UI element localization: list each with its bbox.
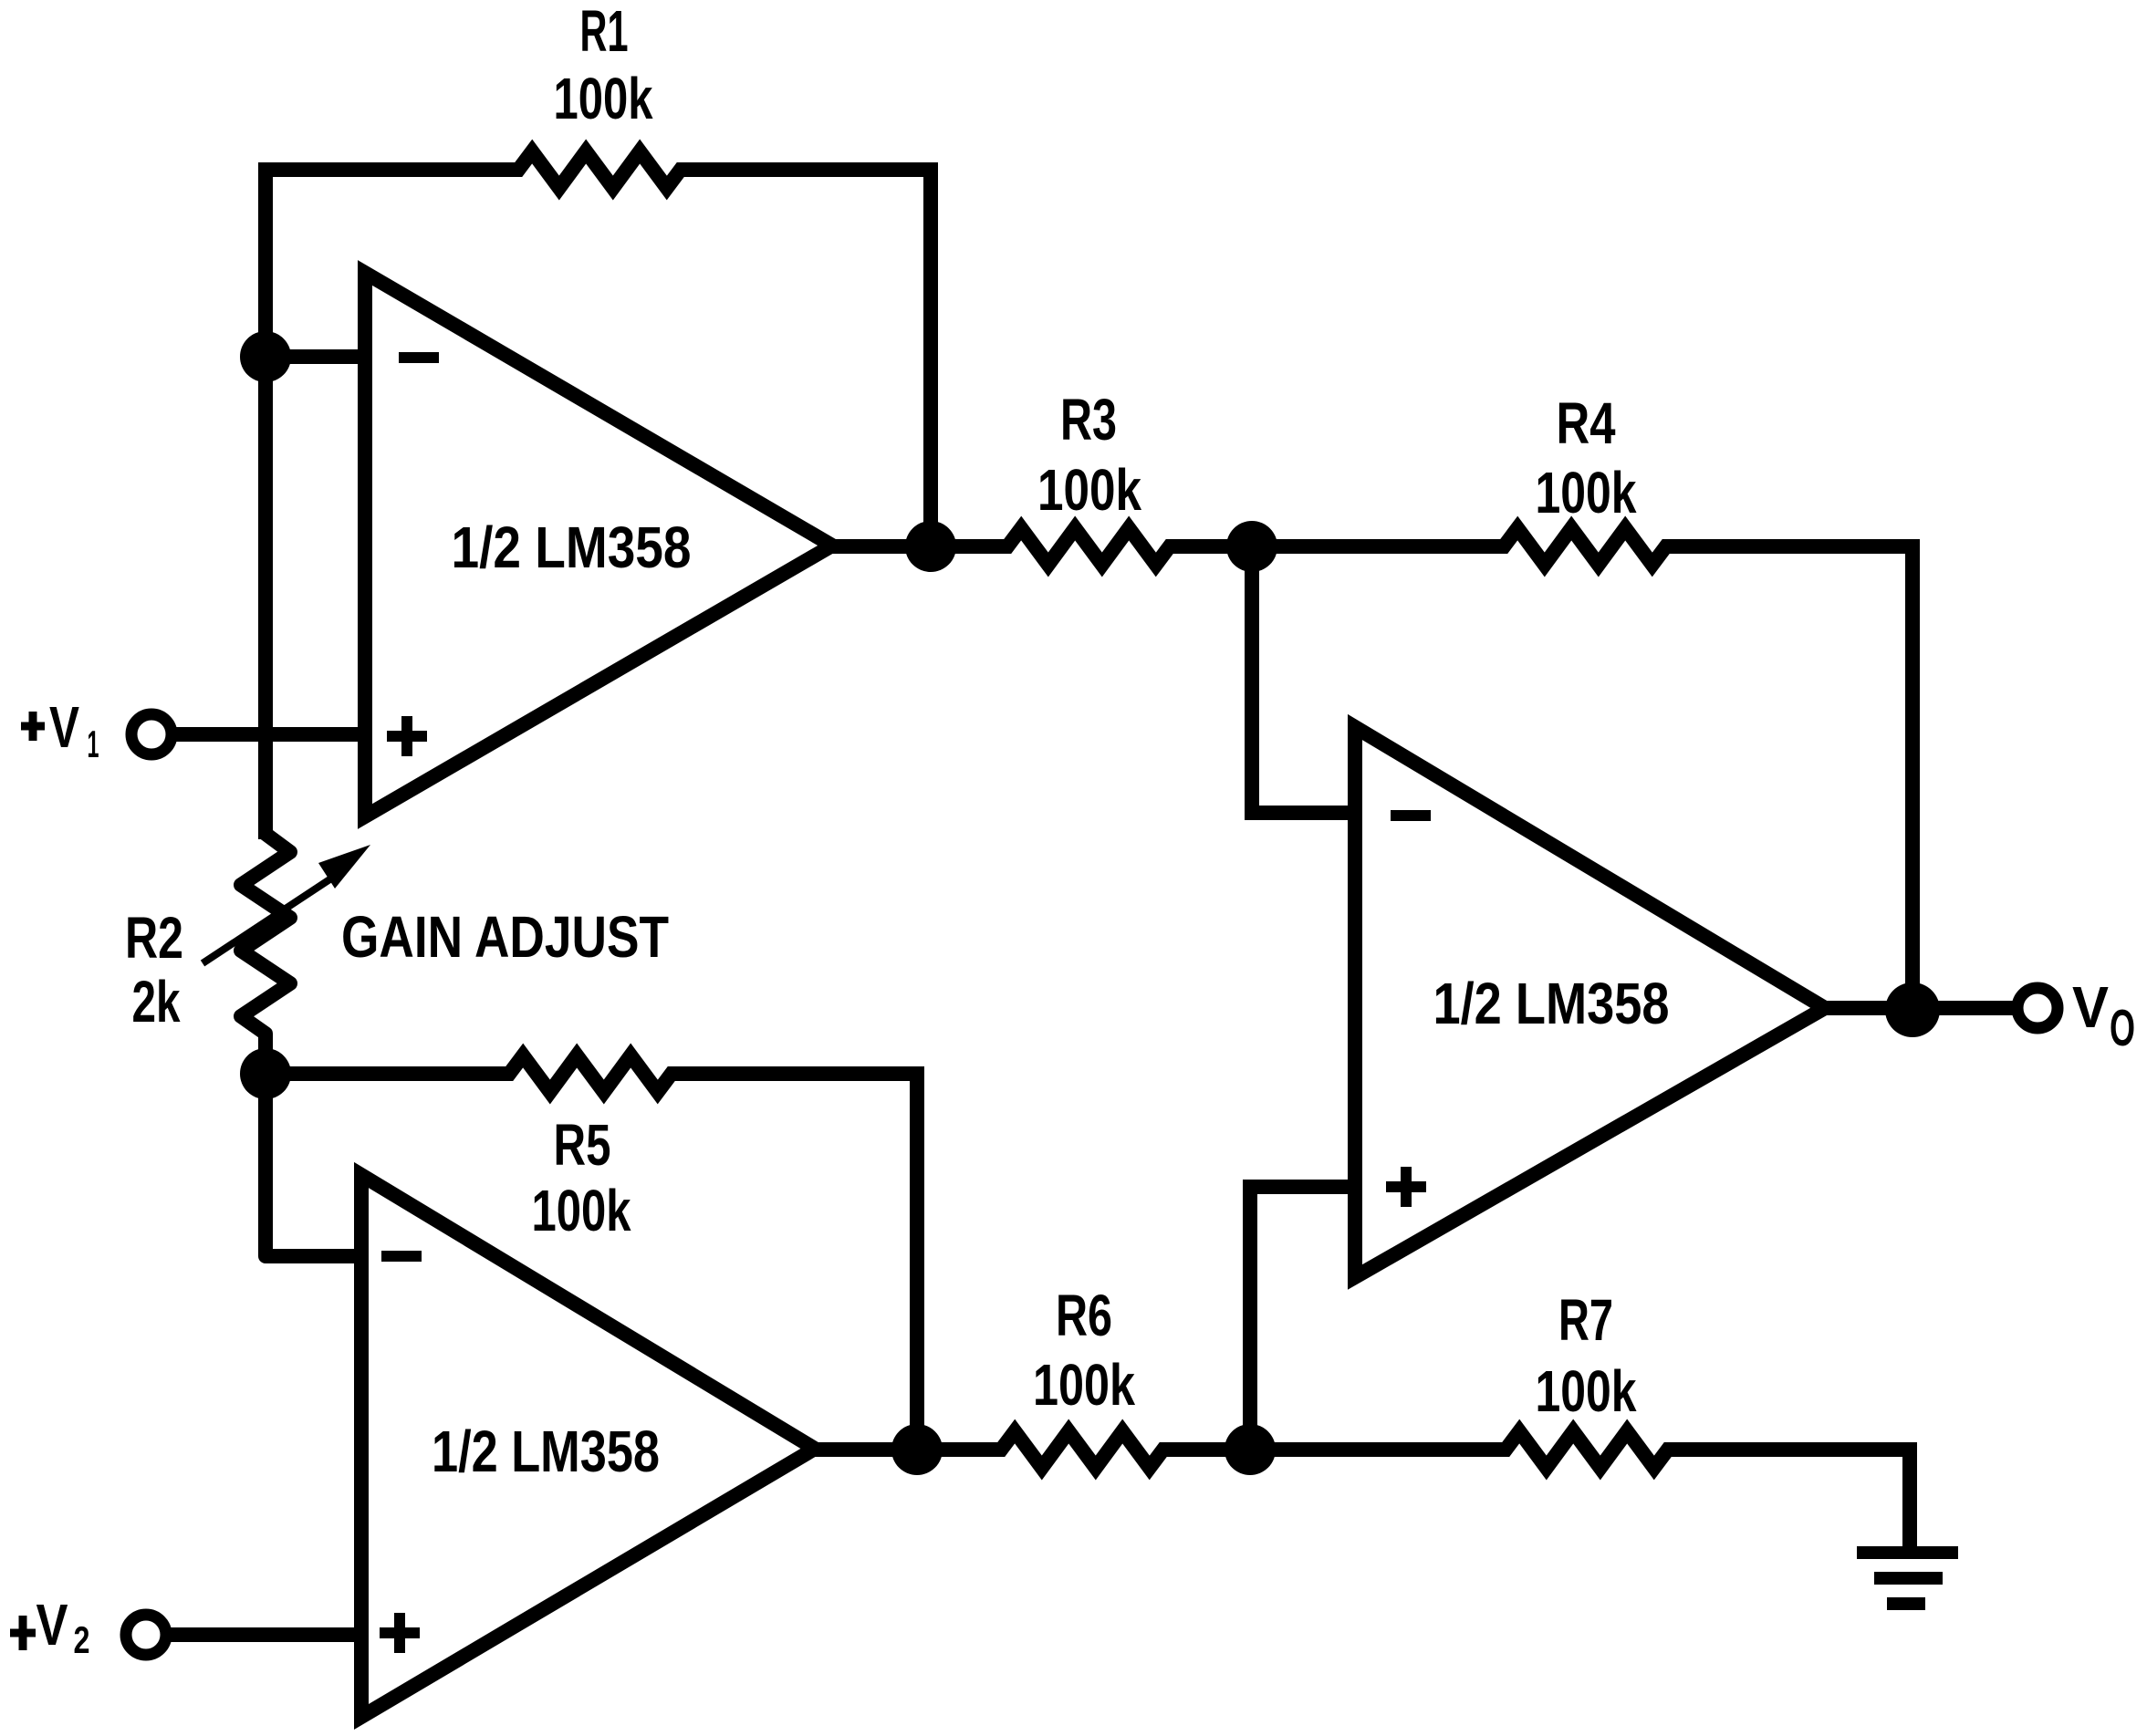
terminal +V2 — [126, 1615, 166, 1655]
svg-text:R4: R4 — [1557, 390, 1616, 456]
U2 plus input symbol — [380, 1627, 420, 1638]
potentiometer R2 zigzag and wire down to U2 inverting input — [241, 816, 365, 1256]
op-amp U1 (1/2 LM358) — [365, 273, 832, 816]
wire: R5 row from node B (with resistor R5) and vertical down to U2 output node — [266, 1055, 917, 1449]
wire: R1 feedback loop (with resistor R1), left rail down to potentiometer R2 — [266, 151, 931, 839]
ground stub — [1902, 1443, 1917, 1551]
node F junction dot (U2 output) — [891, 1424, 943, 1475]
svg-text:1: 1 — [88, 722, 99, 765]
node B junction dot (R2 bottom / R5 node) — [240, 1048, 291, 1099]
svg-text:100k: 100k — [1033, 1352, 1135, 1418]
svg-text:2k: 2k — [132, 969, 181, 1034]
svg-text:100k: 100k — [1536, 1358, 1637, 1424]
label +V1 — [21, 722, 45, 731]
svg-text:100k: 100k — [532, 1178, 631, 1243]
svg-text:R6: R6 — [1056, 1283, 1112, 1348]
wire: node A to U1 inverting input — [266, 349, 365, 364]
node: U1 output junction dot — [905, 521, 956, 572]
ground bar 1 — [1857, 1546, 1958, 1559]
terminal +V1 — [131, 714, 172, 754]
U3 plus input symbol — [1386, 1181, 1426, 1192]
ground bar 3 — [1887, 1597, 1925, 1610]
node E junction dot (R6/R7 junction) — [1225, 1424, 1276, 1475]
node A junction dot (U1 inverting input node) — [240, 331, 291, 382]
svg-text:R2: R2 — [125, 905, 183, 971]
terminal Vo — [2017, 988, 2058, 1028]
svg-text:1/2 LM358: 1/2 LM358 — [1433, 971, 1670, 1036]
svg-text:O: O — [2110, 999, 2135, 1057]
wire: U2 output row with resistor R6 and resistor R7 to ground corner — [808, 1431, 1917, 1468]
U1 plus input symbol — [387, 731, 427, 742]
wire: U1 output row with resistor R3 and resistor R4, right leg down to output node — [826, 528, 1912, 1008]
wire: +V2 to U2 non-inverting input — [166, 1627, 361, 1642]
U1 minus input symbol — [399, 352, 439, 363]
svg-text:100k: 100k — [1536, 460, 1637, 525]
R2 wiper arrow — [203, 873, 339, 963]
svg-text:1/2 LM358: 1/2 LM358 — [432, 1419, 660, 1484]
label +V2 — [10, 1629, 36, 1637]
svg-text:R7: R7 — [1558, 1287, 1613, 1353]
svg-text:R5: R5 — [554, 1112, 611, 1178]
wire: U3 output to Vo terminal — [1819, 1001, 2017, 1015]
wire: +V1 to U1 non-inverting input — [172, 727, 365, 742]
svg-text:100k: 100k — [1037, 457, 1141, 523]
op-amp U3 (1/2 LM358) — [1355, 727, 1825, 1277]
U2 minus input symbol — [381, 1251, 422, 1262]
svg-text:R1: R1 — [580, 0, 629, 64]
svg-text:GAIN ADJUST: GAIN ADJUST — [341, 904, 669, 970]
svg-text:100k: 100k — [554, 66, 653, 131]
svg-text:V: V — [49, 694, 79, 760]
node C junction dot (R3/R4 junction) — [1226, 521, 1277, 572]
svg-text:1/2 LM358: 1/2 LM358 — [452, 515, 692, 580]
svg-text:2: 2 — [74, 1618, 90, 1661]
svg-text:V: V — [36, 1592, 68, 1658]
svg-text:R3: R3 — [1060, 387, 1117, 452]
ground bar 2 — [1874, 1572, 1943, 1585]
U3 minus input symbol — [1391, 810, 1431, 821]
svg-text:V: V — [2072, 974, 2109, 1040]
wire: U3 + input horizontal then vertical down to node E — [1250, 1187, 1355, 1450]
op-amp U2 (1/2 LM358) — [361, 1175, 815, 1717]
wire: node C down and right to U3 inverting input — [1252, 546, 1355, 813]
node D output junction dot — [1885, 982, 1940, 1037]
